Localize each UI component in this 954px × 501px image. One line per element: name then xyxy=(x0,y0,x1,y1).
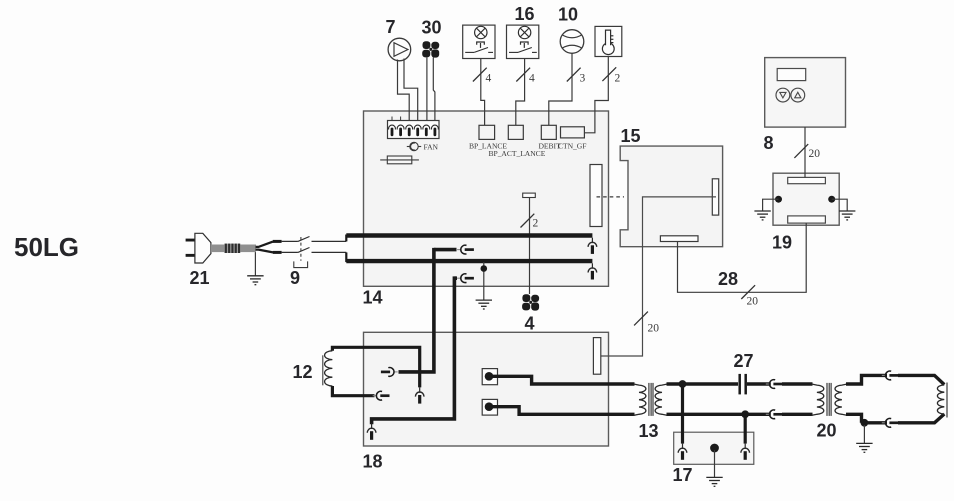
wire to output coil top xyxy=(898,375,944,384)
faston pair top before 20 xyxy=(766,380,783,389)
ground below 17 xyxy=(706,477,722,486)
ground right of 19 xyxy=(839,211,855,220)
junction dot right of 19 xyxy=(828,196,835,203)
faston pair coil 12 bottom xyxy=(373,391,390,400)
svg-text:2: 2 xyxy=(615,72,621,84)
DEBIT connector xyxy=(541,125,556,139)
slash 2 (fan 4 wire) xyxy=(521,214,539,230)
wire coil 12 top xyxy=(332,347,419,387)
slot in 15 right xyxy=(712,179,718,215)
svg-text:30: 30 xyxy=(422,18,442,38)
wire transformer 20 top right xyxy=(846,375,887,384)
wire transformer 13 top right xyxy=(667,382,739,385)
wire top dot into 17 xyxy=(681,384,684,444)
slash 20 on wire 15-18 xyxy=(634,312,659,335)
wire square lower to transformer 13 xyxy=(489,407,635,415)
ground below cord xyxy=(247,276,263,285)
branch wire B down to 18 xyxy=(372,276,455,424)
mains wire L in 14 xyxy=(346,233,592,237)
svg-text:28: 28 xyxy=(718,269,738,289)
faston pair right top xyxy=(882,371,899,380)
faston pair bottom before 20 xyxy=(766,410,783,419)
board box 14 xyxy=(364,111,609,286)
inductor coil 12 xyxy=(323,351,333,386)
svg-text:2: 2 xyxy=(533,218,539,230)
wire 19 left to ground xyxy=(763,199,779,211)
earth junction dot in 14 xyxy=(481,262,488,272)
ground below 20 xyxy=(856,443,872,452)
connector box 17 xyxy=(674,432,754,464)
mains wire N in 14 xyxy=(346,259,592,263)
ball sensor 10 xyxy=(560,30,584,54)
svg-text:21: 21 xyxy=(190,268,210,288)
svg-text:27: 27 xyxy=(734,351,754,371)
svg-text:20: 20 xyxy=(809,148,821,160)
svg-text:3: 3 xyxy=(580,72,586,84)
pin at end of mains wire N xyxy=(588,263,597,279)
svg-text:12: 12 xyxy=(293,362,313,382)
svg-text:9: 9 xyxy=(290,268,300,288)
wire square upper to transformer 13 xyxy=(489,376,635,384)
plug 21 prongs xyxy=(186,239,196,257)
CTN_GF connector xyxy=(561,127,585,138)
earth wire from 17 xyxy=(714,450,716,477)
faston pair in 18 upper xyxy=(381,368,398,377)
wire fan 30 to terminal 5 xyxy=(426,58,428,122)
wire to output coil bottom xyxy=(898,414,944,423)
slash 2 (thermometer wire) xyxy=(602,67,620,84)
pin at end of branch B xyxy=(367,424,376,440)
svg-text:BP_ACT_LANCE: BP_ACT_LANCE xyxy=(489,149,546,158)
transformer 20 xyxy=(812,383,848,416)
pin below coil 12 top wire xyxy=(415,387,424,403)
svg-text:18: 18 xyxy=(363,452,383,472)
ground left of 19 xyxy=(754,211,770,220)
plug 21 body xyxy=(195,233,211,263)
thermometer sensor box xyxy=(595,26,622,56)
pump 7 xyxy=(388,38,411,61)
earth dot in 17 xyxy=(710,444,719,453)
wire pump 7 to terminal 4 xyxy=(404,59,418,122)
wire connector to fan 4 xyxy=(529,198,531,295)
svg-text:FAN: FAN xyxy=(424,142,439,151)
svg-text:20: 20 xyxy=(747,296,759,308)
faston pair right bottom xyxy=(882,418,899,427)
transformer 13 xyxy=(634,383,668,416)
svg-text:50LG: 50LG xyxy=(14,232,79,262)
output coil right xyxy=(937,383,947,418)
junction dot left of 19 xyxy=(775,196,782,203)
svg-text:13: 13 xyxy=(639,421,659,441)
FAN icon xyxy=(407,142,421,150)
BP_LANCE connector xyxy=(479,125,495,139)
wire transformer 13 bottom right xyxy=(667,413,771,416)
edge connector slot in 14 xyxy=(590,165,602,227)
connector box 19 xyxy=(773,173,839,225)
earth wire below 20 xyxy=(863,425,865,443)
svg-text:20: 20 xyxy=(648,323,660,335)
wire pushbutton 16 to BP_ACT_LANCE xyxy=(516,59,525,126)
slash 4 (left pushbutton wire) xyxy=(473,68,492,85)
slash 4 (pushbutton 16 wire) xyxy=(516,68,535,85)
wire 28 from 15 to 19 xyxy=(678,223,807,292)
square terminal lower in 18 xyxy=(482,399,497,415)
wire connector to transformer 20 bottom xyxy=(782,413,813,416)
svg-text:4: 4 xyxy=(525,314,535,334)
wire 19 right to ground xyxy=(832,199,848,211)
switch 9 poles xyxy=(282,237,347,253)
board box 18 xyxy=(364,332,609,446)
faston pair upper xyxy=(457,245,474,254)
wire fan 30 to terminal 6 xyxy=(433,58,435,122)
terminal strip in 14 xyxy=(388,117,440,139)
BP_ACT_LANCE connector xyxy=(508,125,523,139)
svg-text:8: 8 xyxy=(764,133,774,153)
small connector for fan 4 xyxy=(523,193,536,197)
wire capacitor to connector top xyxy=(747,382,771,385)
svg-text:CTN_GF: CTN_GF xyxy=(558,142,586,151)
wire pushbutton to BP_LANCE xyxy=(481,59,485,126)
junction dot top after 13 xyxy=(679,380,687,388)
switch 9 mechanical link xyxy=(294,237,308,268)
wire ball 10 to DEBIT xyxy=(549,53,572,131)
svg-text:7: 7 xyxy=(386,17,396,37)
slot in 15 bottom xyxy=(660,236,698,242)
fan 4 xyxy=(522,294,539,310)
faston pair lower xyxy=(457,274,474,283)
junction dot below 20 xyxy=(861,419,869,427)
power cord xyxy=(211,244,256,253)
slash 3 (ball wire) xyxy=(567,68,586,85)
dashed link 14 to 15 xyxy=(597,196,625,198)
cord earth wire xyxy=(254,252,256,276)
pin at end of mains wire L xyxy=(588,238,597,254)
svg-text:19: 19 xyxy=(772,233,792,253)
slot in 18 top right xyxy=(593,338,600,375)
svg-text:10: 10 xyxy=(558,5,578,25)
branch faston stub lower xyxy=(454,276,457,280)
slash 20 on wire 28 xyxy=(741,285,758,307)
lamp-switch box (left pushbutton) xyxy=(463,25,495,58)
wire transformer 20 bottom right xyxy=(846,414,862,423)
branch wire A down to 18 xyxy=(399,248,434,372)
mains step joints at 14 entry xyxy=(345,235,347,263)
wire pump 7 to terminal 3 xyxy=(398,60,410,122)
fan 30 xyxy=(422,41,439,57)
capacitor 27 xyxy=(740,374,746,395)
branch faston stub upper xyxy=(434,248,457,252)
pin in 17 right xyxy=(741,444,750,460)
svg-text:15: 15 xyxy=(621,126,641,146)
fuse in 14 xyxy=(380,156,419,164)
svg-text:16: 16 xyxy=(515,4,535,24)
svg-text:4: 4 xyxy=(529,72,535,84)
svg-text:20: 20 xyxy=(817,421,837,441)
earth wire to ground below 14 xyxy=(483,272,485,301)
junction dot bottom before 20 xyxy=(741,410,749,418)
switch 9 contact terminals xyxy=(273,240,282,254)
control panel box 8 xyxy=(765,58,846,128)
wire bottom dot into 17 xyxy=(744,414,747,443)
pin in 17 left xyxy=(678,444,687,460)
module box 15 xyxy=(620,146,722,247)
square terminal upper in 18 xyxy=(482,369,497,385)
wire coil 12 bottom xyxy=(332,386,374,396)
wire connector to transformer 20 top xyxy=(782,382,813,385)
slash 20 on wire 8-19 xyxy=(794,144,820,160)
cord conductors to switch xyxy=(256,242,274,253)
svg-text:17: 17 xyxy=(673,465,693,485)
wire thermometer to CTN_GF xyxy=(571,57,608,133)
inner wire 15 to 18 xyxy=(601,197,716,356)
svg-text:14: 14 xyxy=(363,288,383,308)
wire 8 to 19 xyxy=(804,127,806,177)
lamp-switch box 16 xyxy=(507,25,539,58)
svg-text:4: 4 xyxy=(486,72,492,84)
ground below 14 xyxy=(476,300,492,309)
wire dot to faston right bottom xyxy=(862,421,888,424)
